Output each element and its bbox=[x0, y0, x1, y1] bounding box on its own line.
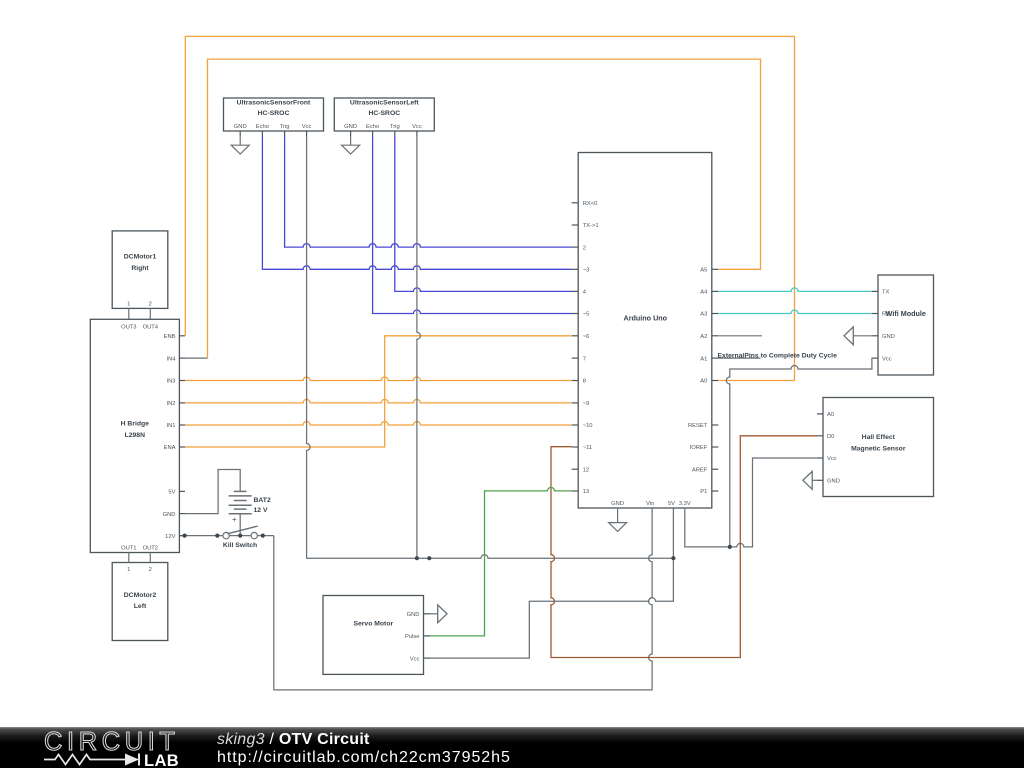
wire blue U2 Echo to Arduino pin ~5 bbox=[373, 137, 572, 314]
svg-text:TX->1: TX->1 bbox=[583, 223, 599, 229]
wire orange IN3 to Arduino pin 8 bbox=[185, 377, 572, 381]
svg-text:A2: A2 bbox=[700, 334, 707, 340]
wire stub A2 bbox=[718, 335, 762, 337]
ultrasonic sensor U2 UltrasonicSensorLeft HC-SROC bbox=[334, 98, 434, 137]
svg-text:UltrasonicSensorFront: UltrasonicSensorFront bbox=[237, 100, 311, 107]
CircuitLab logo LAB bbox=[144, 752, 179, 771]
svg-text:L298N: L298N bbox=[125, 432, 145, 439]
wire M1 pin2 to OUT4 bbox=[149, 308, 151, 319]
CircuitLab logo CIRCUIT bbox=[44, 728, 180, 757]
svg-text:~10: ~10 bbox=[583, 423, 593, 429]
svg-text:OUT3: OUT3 bbox=[121, 325, 136, 331]
svg-text:Kill Switch: Kill Switch bbox=[223, 542, 257, 549]
wire teal Arduino A4 to wifi TX bbox=[718, 288, 871, 292]
wire stub A1 bbox=[718, 357, 760, 359]
wire U1 Vcc down to 5V rail bbox=[307, 137, 674, 559]
wire wifi GND to flag bbox=[853, 335, 871, 337]
svg-text:HC-SROC: HC-SROC bbox=[368, 110, 400, 117]
battery BAT2 12 V bbox=[229, 491, 271, 523]
svg-text:Servo Motor: Servo Motor bbox=[353, 620, 393, 627]
svg-text:Wifi Module: Wifi Module bbox=[886, 309, 926, 318]
wire blue U1 Echo to Arduino pin ~3 bbox=[262, 137, 571, 270]
svg-text:A0: A0 bbox=[827, 412, 834, 418]
svg-text:12 V: 12 V bbox=[254, 507, 268, 514]
svg-text:7: 7 bbox=[583, 356, 586, 362]
svg-text:GND: GND bbox=[611, 501, 624, 507]
svg-text:1: 1 bbox=[127, 567, 130, 573]
svg-text:5V: 5V bbox=[168, 490, 175, 496]
svg-text:IN2: IN2 bbox=[166, 401, 175, 407]
svg-text:Vcc: Vcc bbox=[302, 124, 312, 130]
wire orange ENA to Arduino pin ~6 bbox=[185, 336, 572, 447]
svg-text:Trig: Trig bbox=[390, 124, 400, 130]
svg-text:OUT2: OUT2 bbox=[143, 546, 158, 552]
svg-text:Left: Left bbox=[134, 603, 147, 610]
svg-text:Vcc: Vcc bbox=[412, 124, 422, 130]
svg-text:+: + bbox=[232, 515, 237, 524]
H-bridge U3 L298N bbox=[90, 319, 185, 552]
svg-text:13: 13 bbox=[583, 489, 589, 495]
wire gray IN4 link bbox=[185, 357, 208, 359]
svg-text:OUT1: OUT1 bbox=[121, 546, 136, 552]
svg-text:1: 1 bbox=[127, 301, 130, 307]
motor M1 DCMotor1 Right bbox=[112, 231, 168, 309]
wire green Arduino pin 13 to Servo Pulse bbox=[430, 487, 572, 636]
hall sensor U6 Hall Effect Magnetic Sensor bbox=[817, 398, 934, 497]
wire orange IN1 to Arduino pin ~10 bbox=[185, 422, 572, 426]
microcontroller U4 Arduino Uno bbox=[572, 153, 719, 509]
wire OUT2 to M2 pin2 bbox=[149, 553, 151, 563]
footer url bbox=[217, 749, 511, 767]
wire brown Arduino pin ~11 to Hall D0 bbox=[551, 436, 817, 658]
servo M3 Servo Motor bbox=[323, 596, 430, 675]
ground for U1 GND bbox=[231, 137, 249, 155]
net flag arrow servo GND bbox=[438, 605, 447, 623]
ultrasonic sensor U1 UltrasonicSensorFront HC-SROC bbox=[224, 98, 324, 137]
switch SW1 Kill Switch bbox=[179, 526, 273, 549]
wire orange IN2 to Arduino pin ~9 bbox=[185, 399, 572, 402]
svg-text:~5: ~5 bbox=[583, 312, 590, 318]
junction dots bbox=[183, 534, 732, 561]
wire orange IN4 to Arduino A5 via top bbox=[208, 59, 761, 358]
svg-text:IN1: IN1 bbox=[166, 423, 175, 429]
CircuitLab logo resistor-diode glyph bbox=[44, 751, 150, 767]
svg-text:Vcc: Vcc bbox=[882, 356, 892, 362]
wire hall GND to flag bbox=[812, 479, 817, 481]
svg-text:H Bridge: H Bridge bbox=[121, 421, 150, 428]
svg-text:RESET: RESET bbox=[688, 423, 708, 429]
ground for Arduino GND pin bbox=[609, 508, 627, 531]
wire Arduino Vin down to kill switch bbox=[274, 508, 652, 690]
svg-text:Echo: Echo bbox=[366, 124, 379, 130]
wire servo GND to flag bbox=[430, 613, 438, 615]
ground for U2 GND bbox=[342, 137, 360, 155]
wire blue U1 Trig to Arduino pin 2 bbox=[285, 137, 572, 248]
svg-text:UltrasonicSensorLeft: UltrasonicSensorLeft bbox=[350, 100, 419, 107]
svg-text:Magnetic Sensor: Magnetic Sensor bbox=[851, 445, 906, 452]
svg-text:GND: GND bbox=[344, 124, 357, 130]
svg-text:A0: A0 bbox=[700, 379, 707, 385]
net flag arrow wifi GND bbox=[844, 327, 853, 345]
svg-text:Hall Effect: Hall Effect bbox=[862, 434, 896, 441]
svg-text:GND: GND bbox=[163, 512, 176, 518]
svg-text:A3: A3 bbox=[700, 312, 707, 318]
svg-text:GND: GND bbox=[882, 334, 895, 340]
svg-text:Right: Right bbox=[131, 265, 149, 272]
svg-text:GND: GND bbox=[827, 479, 840, 485]
svg-text:12: 12 bbox=[583, 467, 589, 473]
motor M2 DCMotor2 Left bbox=[112, 563, 168, 641]
svg-text:DCMotor2: DCMotor2 bbox=[124, 592, 157, 599]
wire Arduino 5V to Servo Vcc bbox=[430, 508, 673, 658]
svg-text:5V: 5V bbox=[668, 501, 675, 507]
svg-text:ENB: ENB bbox=[164, 334, 176, 340]
svg-text:P1: P1 bbox=[700, 489, 707, 495]
svg-text:DCMotor1: DCMotor1 bbox=[124, 254, 157, 261]
svg-text:A4: A4 bbox=[700, 290, 708, 296]
wire battery bottom to switch node bbox=[239, 514, 241, 536]
wire teal Arduino A3 to wifi RX bbox=[718, 310, 871, 313]
svg-text:OUT4: OUT4 bbox=[143, 325, 159, 331]
svg-text:TX: TX bbox=[882, 290, 890, 296]
wifi module U5 Wifi Module bbox=[872, 275, 934, 375]
svg-text:HC-SROC: HC-SROC bbox=[258, 110, 290, 117]
svg-text:~11: ~11 bbox=[583, 445, 592, 451]
svg-text:Vin: Vin bbox=[646, 501, 654, 507]
footer bar bbox=[0, 727, 1024, 768]
svg-text:D0: D0 bbox=[827, 434, 834, 440]
net flag arrow hall GND bbox=[803, 471, 812, 489]
wire M1 pin1 to OUT3 bbox=[128, 308, 130, 319]
svg-text:2: 2 bbox=[149, 301, 152, 307]
svg-text:Trig: Trig bbox=[280, 124, 290, 130]
svg-text:IOREF: IOREF bbox=[690, 445, 708, 451]
svg-text:12V: 12V bbox=[165, 534, 175, 540]
svg-text:IN4: IN4 bbox=[166, 356, 176, 362]
svg-text:3.3V: 3.3V bbox=[679, 501, 691, 507]
wire OUT1 to M2 pin1 bbox=[128, 553, 130, 563]
svg-text:ENA: ENA bbox=[164, 445, 176, 451]
svg-text:2: 2 bbox=[583, 245, 586, 251]
wire orange ENB to Arduino A0 via top bbox=[185, 36, 794, 380]
svg-text:Vcc: Vcc bbox=[410, 656, 420, 662]
wire U2 Vcc down to 5V rail bbox=[417, 137, 421, 559]
svg-text:AREF: AREF bbox=[692, 467, 708, 473]
wire blue U2 Trig to Arduino pin 4 bbox=[395, 137, 572, 292]
wire Arduino 3.3V to Hall Vcc bbox=[685, 458, 817, 547]
svg-text:~3: ~3 bbox=[583, 268, 590, 274]
svg-text:A5: A5 bbox=[700, 268, 707, 274]
svg-text:ExternalPins to Complete Duty: ExternalPins to Complete Duty Cycle bbox=[718, 352, 838, 359]
svg-text:RX<0: RX<0 bbox=[583, 201, 598, 207]
svg-text:8: 8 bbox=[583, 379, 586, 385]
svg-text:BAT2: BAT2 bbox=[254, 497, 271, 504]
svg-text:~9: ~9 bbox=[583, 401, 590, 407]
svg-text:GND: GND bbox=[407, 612, 420, 618]
svg-text:Pulse: Pulse bbox=[405, 634, 420, 640]
footer credit sking3 / OTV Circuit bbox=[217, 731, 370, 749]
svg-text:A1: A1 bbox=[700, 356, 707, 362]
wire H-bridge GND to battery top bbox=[185, 470, 240, 514]
svg-text:Echo: Echo bbox=[256, 124, 269, 130]
svg-text:Arduino Uno: Arduino Uno bbox=[624, 313, 668, 322]
svg-text:~6: ~6 bbox=[583, 334, 590, 340]
svg-text:GND: GND bbox=[234, 124, 247, 130]
wire wifi Vcc to 3.3V rail bbox=[726, 358, 872, 547]
svg-text:IN3: IN3 bbox=[166, 379, 175, 385]
svg-text:Vcc: Vcc bbox=[827, 456, 837, 462]
svg-text:2: 2 bbox=[149, 567, 152, 573]
